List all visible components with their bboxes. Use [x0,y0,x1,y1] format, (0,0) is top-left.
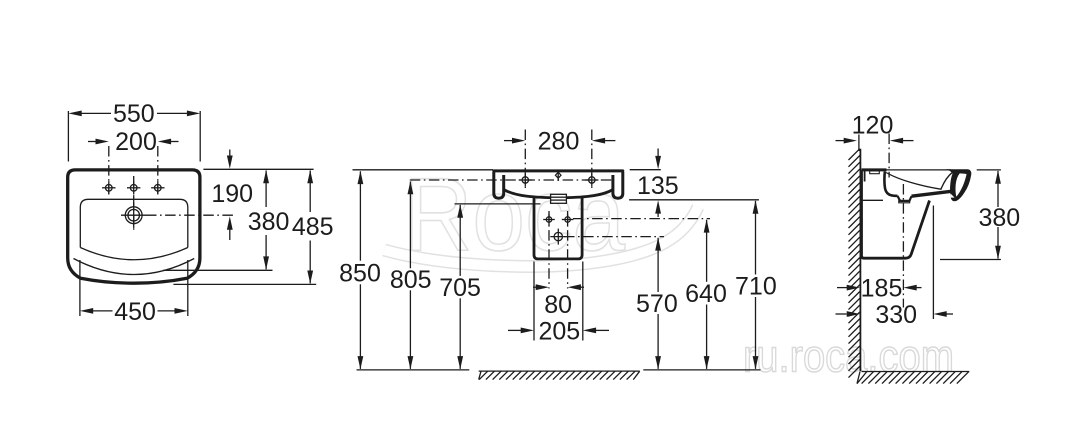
dim 185 [837,275,922,303]
tap hole back right [589,177,595,183]
extension line 450 right [187,260,189,316]
svg-text:710: 710 [735,273,777,301]
extension line 330 [932,206,934,320]
svg-text:205: 205 [538,318,580,346]
dim 80 [533,284,584,319]
centerline 570 horizontal [564,236,664,238]
svg-text:805: 805 [390,266,432,294]
centerline faucet horizontal [146,214,234,216]
dim 850 [339,171,381,370]
basin front outline [68,170,200,283]
centerline tap hole right [157,146,159,194]
floor line side [862,371,970,373]
svg-text:450: 450 [114,298,156,326]
center diamond marker [555,170,561,182]
svg-text:190: 190 [211,180,253,208]
basin left end cap [494,172,504,198]
extension line 850 top [353,169,494,171]
svg-text:380: 380 [248,208,290,236]
extension line 450 left [79,260,81,316]
extension line 135 top [630,169,661,171]
tap axis centerline [888,134,890,178]
extension line 205 right [582,262,584,341]
trap box [534,198,582,259]
extension line 380 top [977,169,1001,171]
drain detail [551,194,567,203]
dim 330 [836,301,954,329]
drain recess [898,196,912,203]
dim 120 [836,138,914,144]
tap hole 3 [155,185,162,192]
basin front lower edge [74,259,195,275]
extension line 380 bottom [163,269,272,271]
basin top edge [494,169,623,172]
centerline 640 horizontal [573,218,710,220]
dim 190 [211,150,253,241]
extension line 550 left [67,111,69,162]
svg-text:640: 640 [685,280,727,308]
dim 640 [685,219,727,369]
svg-text:380: 380 [978,204,1020,232]
drain axis centerline [902,184,904,308]
bolt centerline left [548,211,550,289]
tap centerline horizontal [410,179,612,181]
dim 550 [68,100,200,128]
svg-text:ru.roca.com: ru.roca.com [743,331,954,382]
tap hole back left [522,177,528,183]
floor line left [357,369,470,371]
dim 485 [292,170,334,284]
svg-text:80: 80 [544,291,572,319]
watermark swoosh [384,207,698,266]
dim 205 [508,318,609,346]
basin inner rim [80,199,188,259]
svg-text:705: 705 [439,274,481,302]
floor hatch [479,371,640,380]
centerline tap hole left [108,146,110,194]
bowl inner rim line [886,173,941,190]
wall line [859,149,861,371]
extension line 705 top [455,203,541,205]
extension line 485 bottom [173,283,316,285]
dim 570 [636,237,678,369]
svg-text:330: 330 [875,301,917,329]
svg-text:570: 570 [636,290,678,318]
dim 705 [439,204,481,369]
dim 280 [504,128,615,156]
dim 380 side [978,170,1020,259]
svg-text:280: 280 [538,128,580,156]
bolt centerline right [567,211,569,289]
dim 135 bottom arrow [655,200,661,217]
extension line 550 right [199,111,201,162]
bowl bottom slope [912,191,958,197]
extension line 380 bottom [940,259,1001,261]
svg-text:200: 200 [115,128,157,156]
tap hole 1 [106,185,113,192]
svg-text:850: 850 [339,259,381,287]
dim 450 [80,298,188,326]
basin underside curve [504,190,613,198]
bowl back wall [884,172,897,196]
rim top thin [887,169,952,171]
front cap inner line [941,172,953,189]
svg-text:120: 120 [852,111,894,139]
extension dash 280 left [524,130,526,189]
floor line right [643,369,760,371]
extension line 135 bottom [629,199,759,201]
centerline faucet vertical [133,176,135,232]
basin right end cap [613,172,623,198]
dim 710 [735,200,777,369]
mounting flange [862,171,884,200]
dim 135 top arrow [655,149,661,170]
front cap [946,169,971,201]
extension line 120 left [858,135,860,152]
extension line top right [203,168,313,170]
dim 805 [390,181,432,369]
svg-text:485: 485 [292,213,334,241]
faucet hole [125,207,142,224]
bolt hole right [565,217,570,222]
svg-text:185: 185 [861,275,903,303]
wall hatch [849,149,860,378]
bolt hole left [546,217,551,222]
dim 380 [248,170,290,270]
basin back and bottom profile [862,170,930,258]
extension dash 280 right [591,130,593,189]
svg-text:135: 135 [637,172,679,200]
tap hole 2 [130,185,137,192]
floor hatch side [857,372,969,384]
extension line 205 left [533,262,535,341]
svg-text:550: 550 [113,100,155,128]
drain hole [554,232,562,240]
dim 200 [88,128,179,156]
rim top thick [862,168,887,171]
